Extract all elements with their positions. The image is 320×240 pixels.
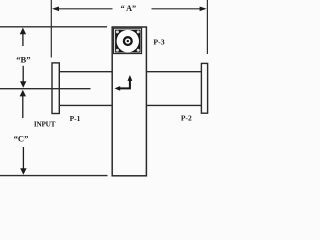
connector P-3 corner hole bottom-right [137,49,140,52]
horizontal body right section bottom edge [146,104,201,106]
connector P-3 corner hole top-right [137,30,140,33]
svg-text:“C”: “C” [14,134,29,144]
dimension C lower arrow [22,147,24,170]
dimension A right arrowhead [200,7,207,12]
dimension C upper arrow [22,95,24,119]
connector P-3 inner ring [124,37,132,45]
connector P-3 corner hole bottom-left [116,49,119,52]
svg-text:P-1: P-1 [70,114,81,123]
extension line top of column (B reference) [0,26,107,28]
dimension A line right segment [152,8,202,10]
right flange P-2 body [201,63,207,113]
dimension B upper arrow [22,33,24,46]
extension line right (P-2 outer face) [206,0,208,54]
connector P-3 corner hole top-left [116,30,119,33]
svg-text:“B”: “B” [16,55,30,65]
dimension B lower arrow [22,66,24,82]
extension line bottom (C reference) [0,175,108,177]
left flange P-1 body [52,63,59,114]
flow arrow inside column [119,80,130,88]
dimension A line left segment [57,8,113,10]
connector P-3 center pin [127,40,129,42]
svg-text:P-2: P-2 [181,114,192,123]
svg-text:P-3: P-3 [153,38,164,47]
horizontal body right section top edge [146,71,201,73]
connector P-3 barrel circle [117,30,139,52]
connector P-3 mounting plate (dark) [115,30,141,53]
connector P-3 flange plate outline [114,28,142,53]
horizontal body left section top edge [59,71,112,73]
dimension A left arrowhead [52,7,59,12]
svg-text:“ A”: “ A” [120,4,136,13]
extension line left (P-1 outer face) [50,0,52,58]
svg-text:INPUT: INPUT [34,120,56,128]
vertical body column [112,27,146,176]
horizontal body left section bottom edge [59,104,112,106]
input centerline (B/C reference) [0,88,91,90]
